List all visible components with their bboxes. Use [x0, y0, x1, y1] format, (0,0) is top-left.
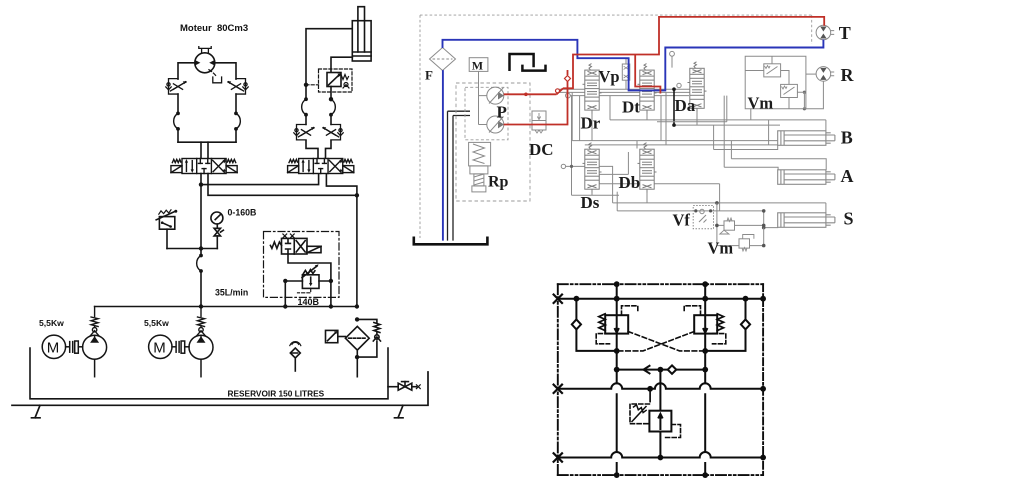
- node V2 border: [702, 281, 708, 287]
- node V1 bottom border: [614, 472, 620, 478]
- proportional valve Da: [688, 62, 707, 112]
- plugged test ports x x: [283, 234, 294, 238]
- main vertical V1: [616, 284, 618, 475]
- svg-text:A: A: [841, 166, 854, 186]
- check valve CV2: [197, 307, 205, 337]
- drain tank symbol: [213, 77, 222, 83]
- counterbalance CB-R body: [694, 315, 717, 333]
- svg-text:M: M: [153, 340, 166, 357]
- check valve CV1: [91, 307, 99, 337]
- node L2 right border: [760, 386, 766, 392]
- valve stub Dt bottom: [646, 113, 648, 120]
- filter bypass check: [357, 319, 380, 357]
- counterbalance valve CB1: [319, 69, 353, 92]
- node black top: [672, 87, 676, 91]
- wire valveA top stubs: [201, 142, 208, 158]
- Vm relief 2: [717, 235, 764, 252]
- flow control FC4: [322, 124, 343, 139]
- bracket icon A: [510, 54, 534, 71]
- hose H4: [302, 97, 308, 116]
- Vm relief2 outlet line: [792, 92, 804, 109]
- wire relief ports: [285, 280, 331, 282]
- node T return junction: [355, 193, 359, 197]
- node L3 reducer out: [658, 455, 664, 461]
- svg-text:B: B: [841, 127, 853, 147]
- node S3: [762, 226, 766, 230]
- wire left branch mid: [305, 85, 307, 99]
- flow control FC2: [227, 79, 248, 94]
- gallery line g3: [570, 95, 689, 97]
- reservoir tank walls: [30, 348, 388, 399]
- Vm relief 1: [717, 218, 764, 234]
- reducer arrow: [659, 414, 663, 429]
- node V2 bottom border: [702, 472, 708, 478]
- node manifold relief in: [283, 304, 287, 308]
- S rod pipe: [613, 203, 826, 213]
- svg-text:Vf: Vf: [673, 211, 691, 230]
- node mid tee: [658, 367, 664, 373]
- mid diamond: [668, 365, 677, 373]
- wire relief inlet riser: [284, 281, 286, 307]
- node P junction: [199, 182, 203, 186]
- node Vf in: [694, 209, 697, 212]
- node L2 pilot: [647, 386, 653, 392]
- hose H3 on P riser: [197, 254, 203, 273]
- R motor link: [806, 73, 816, 75]
- hose H5: [329, 97, 335, 116]
- svg-text:F: F: [425, 68, 433, 83]
- hydraulic motor T: [816, 25, 834, 40]
- relief valve 140B: [298, 264, 320, 292]
- wire valveB T return: [326, 174, 357, 307]
- wire valveA T port: [208, 174, 357, 196]
- wire motor loop left top: [178, 63, 195, 79]
- filter F diamond: [430, 48, 456, 71]
- valve stub Dr bottom: [591, 113, 593, 141]
- wire cyl lower port: [331, 57, 352, 72]
- suction line 2: [453, 116, 470, 241]
- CB-L pilot dashed bottom: [596, 334, 609, 344]
- inter-valve vertical v8: [660, 96, 662, 141]
- valve stub Ds bottom: [591, 192, 593, 196]
- Ds right mid line to S rail: [599, 166, 612, 203]
- svg-text:35L/min: 35L/min: [215, 288, 248, 298]
- pump unit outer dashed box: [456, 83, 530, 201]
- pump P2: [487, 116, 504, 133]
- node left branch: [574, 296, 580, 302]
- node right loop: [702, 348, 708, 354]
- pilot drop: [649, 389, 651, 402]
- pump P1 flow triangle: [498, 92, 504, 100]
- pump P1 control arrow: [489, 88, 504, 104]
- svg-text:Moteur 80Cm3: Moteur 80Cm3: [180, 23, 248, 34]
- hydraulic motor M1 circle: [195, 53, 215, 73]
- node black bottom: [672, 123, 676, 127]
- hydraulic motor R: [816, 67, 834, 82]
- directional valve DV2: [288, 159, 354, 174]
- suction line 1: [448, 111, 471, 240]
- wire right loop low: [235, 129, 237, 142]
- electric motor M box: [469, 58, 488, 72]
- node pilot tap: [304, 83, 308, 87]
- port X3: [554, 453, 562, 461]
- gallery line g2: [557, 91, 700, 93]
- node Vf out: [709, 209, 712, 212]
- svg-text:RESERVOIR 150 LITRES: RESERVOIR 150 LITRES: [228, 388, 325, 398]
- wire cyl upper port: [306, 29, 352, 85]
- red branch to gallery: [635, 55, 660, 94]
- node Vm1 left: [715, 224, 719, 228]
- Db top-left stub: [636, 141, 638, 149]
- wire under hose H4: [305, 115, 307, 125]
- svg-text:140B: 140B: [298, 297, 320, 307]
- node manifold P: [199, 304, 203, 308]
- left riser x579: [579, 96, 581, 141]
- svg-text:Da: Da: [675, 96, 696, 115]
- reducer feed vertical: [659, 370, 661, 458]
- red check ball: [556, 89, 560, 93]
- cylinder S: [778, 213, 835, 228]
- pilot cross dashed 1: [628, 332, 703, 351]
- svg-text:Vm: Vm: [748, 94, 774, 113]
- red main riser: [563, 17, 824, 88]
- node gauge tee: [199, 246, 203, 250]
- Vm top relief 1: [764, 64, 781, 77]
- svg-text:0-160B: 0-160B: [228, 208, 257, 218]
- proportional valve Ds: [583, 143, 602, 193]
- line g13: [572, 194, 620, 196]
- solenoid unloading valve 2/2: [270, 238, 321, 254]
- CB-R spring: [717, 314, 723, 331]
- wire under hose H5: [330, 115, 332, 125]
- A rod pipe: [731, 141, 826, 170]
- proportional valve Dr: [583, 64, 602, 114]
- bracket icon B: [522, 65, 545, 71]
- left check branch: [576, 299, 616, 351]
- border right dotted: [762, 284, 764, 475]
- port X2: [554, 385, 562, 393]
- node hose top right branch: [329, 97, 333, 101]
- svg-text:DC: DC: [529, 140, 554, 159]
- svg-text:P: P: [497, 103, 507, 122]
- port circle Ds left: [561, 164, 565, 168]
- cylinder CYL1 vertical: [352, 7, 371, 61]
- CB-L pilot dashed top: [622, 306, 638, 315]
- tank symbol: [414, 237, 488, 245]
- wire loop bottom: [178, 141, 236, 143]
- blue return line: [443, 40, 824, 91]
- motor-pump group 2: [149, 335, 213, 377]
- red check diag: [557, 88, 564, 94]
- drive shaft: [479, 71, 487, 124]
- node V1 border: [614, 281, 620, 287]
- motor port arrow left: [195, 60, 200, 65]
- B rod feeder: [768, 120, 770, 145]
- svg-text:Vp: Vp: [599, 67, 620, 86]
- right check diamond: [741, 319, 750, 329]
- Vm top frame: [745, 56, 806, 109]
- valve stub Db bottom: [646, 192, 648, 203]
- wire FC4 to valveB: [326, 140, 332, 158]
- wire P riser from valveA: [200, 174, 202, 256]
- node rail right border: [760, 296, 766, 302]
- A cap pipe: [724, 96, 778, 171]
- node Vm2 right: [762, 244, 766, 248]
- border bottom dash-dot: [558, 474, 763, 476]
- svg-text:R: R: [841, 65, 855, 85]
- main vertical V2: [704, 284, 706, 475]
- blue filter drop: [442, 70, 444, 241]
- inter-valve vertical v9: [665, 92, 667, 144]
- unloader dash-dot enclosure: [264, 232, 340, 298]
- left check diamond: [572, 319, 581, 329]
- filter F mesh: [433, 58, 453, 60]
- skid baseline: [12, 372, 428, 405]
- pump P2 control arrow: [489, 117, 504, 133]
- node bypass top: [355, 317, 359, 321]
- node relief right: [329, 279, 333, 283]
- gallery g6: [572, 92, 810, 140]
- Rp foot: [472, 186, 486, 192]
- proportional valve Db: [638, 143, 657, 193]
- proportional valve Dt: [638, 64, 657, 114]
- line to B rod side: [610, 96, 826, 131]
- svg-text:Ds: Ds: [581, 193, 600, 212]
- node manifold relief out: [329, 304, 333, 308]
- port circle Da left: [677, 83, 681, 87]
- Db up branch: [627, 152, 629, 174]
- wire right loop mid: [235, 94, 237, 113]
- Rp piston: [470, 166, 488, 174]
- top rail: [558, 298, 763, 300]
- line g10: [599, 173, 628, 175]
- wire P riser low: [200, 271, 202, 307]
- svg-text:Rp: Rp: [488, 174, 509, 191]
- Vm box to B-line stub: [750, 109, 752, 120]
- pressure gauge 0-160B: [211, 212, 224, 249]
- DC pilot valve: [532, 111, 546, 133]
- wire motor loop right top: [215, 63, 236, 79]
- reducer spring box dashed: [630, 404, 649, 424]
- reducer spring arrow: [632, 405, 646, 422]
- node Vm box a: [795, 91, 798, 94]
- motor port arrow right: [209, 60, 214, 65]
- valve stub Da bottom: [696, 111, 698, 125]
- S mid pipe: [617, 210, 764, 212]
- stub from port circle: [671, 56, 673, 67]
- Vm box stubs: [745, 56, 789, 109]
- reducer pilot dashed right: [663, 425, 681, 438]
- node red pump junction: [524, 93, 528, 97]
- node S2: [762, 209, 766, 213]
- Vf lever: [699, 215, 707, 223]
- wire P branch to valveB: [201, 174, 319, 185]
- svg-text:T: T: [839, 23, 851, 43]
- flow control FC3: [294, 124, 315, 139]
- red pressure line P1 out: [504, 93, 557, 95]
- svg-text:Vm: Vm: [708, 239, 734, 258]
- directional valve DV1: [171, 159, 237, 174]
- right check branch: [705, 299, 745, 351]
- mid rail: [617, 369, 706, 371]
- node V2 mid: [702, 367, 708, 373]
- pump pair dashed box: [465, 87, 508, 140]
- node S1: [715, 201, 719, 205]
- node L3 right border: [760, 455, 766, 461]
- mid arrow: [644, 366, 650, 374]
- bottom rail L3: [558, 452, 763, 457]
- clogging indicator: [326, 330, 346, 342]
- motor mount symbol: [199, 47, 211, 53]
- border top dash-dot: [558, 283, 763, 285]
- CB-R pilot dashed top: [684, 306, 700, 315]
- node V2 rail: [702, 296, 708, 302]
- Vm top relief 2: [781, 84, 798, 97]
- red check diamond: [565, 76, 571, 82]
- breather filler: [290, 342, 301, 371]
- node Vm box c: [803, 107, 806, 110]
- CB-R arrow: [703, 317, 707, 333]
- node relief left: [283, 279, 287, 283]
- pressure switch PS1: [156, 210, 177, 249]
- R motor bottom link: [806, 81, 824, 109]
- cylinder B: [778, 131, 835, 146]
- Vf ball: [700, 209, 704, 213]
- reducer valve body: [649, 411, 671, 432]
- wire CB1 to hose: [330, 87, 332, 100]
- CB-R pilot dashed bottom: [713, 334, 726, 344]
- Ds left stub: [566, 165, 585, 167]
- node left loop: [614, 348, 620, 354]
- wire relief outlet riser: [330, 281, 332, 307]
- Rp spring: [473, 144, 485, 164]
- pilot dashed line: [306, 84, 319, 86]
- hose H1: [174, 112, 180, 131]
- S branch vertical right: [763, 228, 765, 246]
- B cap pipe: [714, 125, 778, 149]
- port circle mid: [670, 51, 675, 56]
- return filter F1: [345, 326, 369, 376]
- line g5: [674, 124, 780, 126]
- svg-text:Db: Db: [619, 173, 641, 192]
- svg-text:Dr: Dr: [581, 114, 601, 133]
- Ds bottom to S mid rail: [616, 192, 618, 211]
- black riser: [673, 89, 675, 125]
- gallery g7: [585, 144, 807, 146]
- wire unloader outlet: [288, 254, 331, 281]
- pump P1: [487, 87, 504, 104]
- svg-text:5,5Kw: 5,5Kw: [39, 318, 64, 328]
- Rp rod hatched: [474, 174, 484, 186]
- svg-text:Dt: Dt: [622, 98, 640, 117]
- crossing rail L2: [558, 383, 763, 388]
- node bypass bottom: [355, 355, 359, 359]
- port circle left: [566, 93, 571, 98]
- node V1 rail: [614, 296, 620, 302]
- node Vm1 right: [762, 224, 766, 228]
- counterbalance CB-L body: [605, 315, 628, 333]
- S branch vertical left: [716, 203, 718, 246]
- node Ds stub: [570, 165, 573, 168]
- pressure regulator Rp spring box: [469, 142, 491, 166]
- red pump2 line: [504, 70, 568, 125]
- wire left loop mid: [177, 94, 179, 113]
- port X1: [554, 295, 562, 304]
- svg-text:5,5Kw: 5,5Kw: [144, 318, 169, 328]
- drain ball valve: [388, 382, 420, 391]
- motor-pump group 1: [42, 335, 106, 377]
- node V1 mid: [614, 367, 620, 373]
- flow control FC1: [166, 79, 187, 94]
- hose H2: [234, 112, 240, 131]
- node right branch: [743, 296, 749, 302]
- svg-text:M: M: [47, 340, 60, 357]
- cylinder A: [778, 170, 835, 185]
- svg-text:S: S: [844, 209, 854, 229]
- CB-L arrow: [615, 317, 619, 333]
- S cap elbow: [764, 211, 778, 228]
- skid leg right: [395, 405, 404, 418]
- wire pump manifold: [95, 306, 357, 308]
- Ds side stub: [598, 174, 600, 183]
- valve Vp body: [622, 58, 630, 89]
- left long gallery: [571, 96, 573, 196]
- pump P2 flow triangle: [498, 121, 504, 129]
- enclosure dashed border: [420, 15, 812, 238]
- pilot cross dashed 2: [620, 332, 695, 351]
- gallery line g1: [557, 88, 693, 90]
- feeder vertical x727: [657, 96, 727, 122]
- Vf frame: [693, 206, 713, 229]
- CB-L spring: [599, 314, 605, 331]
- wire left loop low: [177, 129, 179, 142]
- border left dash-dot: [557, 284, 559, 475]
- motor drain dashed line: [209, 70, 217, 77]
- svg-text:M: M: [472, 58, 483, 72]
- wire FC3 to valveB: [306, 140, 318, 158]
- skid leg left: [32, 405, 41, 418]
- node manifold return: [355, 304, 359, 308]
- node Vm box b: [803, 91, 806, 94]
- wire gauge tee: [167, 248, 217, 250]
- line g11: [599, 184, 719, 211]
